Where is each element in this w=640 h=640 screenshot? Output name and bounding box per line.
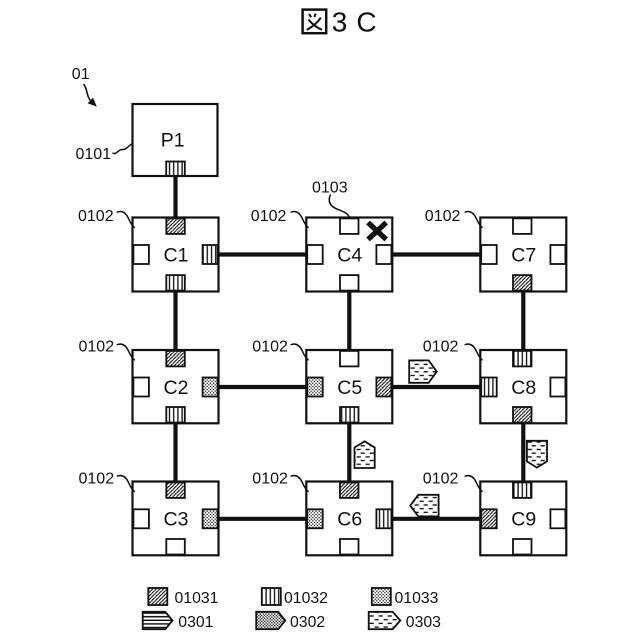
wire C2-C3 <box>173 422 177 483</box>
port C6 south <box>340 539 359 555</box>
svg-text:3: 3 <box>332 7 348 38</box>
svg-text:C3: C3 <box>164 509 189 531</box>
svg-text:P1: P1 <box>161 129 185 151</box>
svg-text:0102: 0102 <box>251 208 287 225</box>
legend swatch 0302 <box>256 612 285 629</box>
node C7 <box>480 218 566 292</box>
title 図3C <box>303 7 377 38</box>
wire C7-C8 <box>521 290 525 351</box>
wire C5-C8 <box>391 385 481 389</box>
svg-text:01031: 01031 <box>175 590 219 607</box>
port C2 north 01031 <box>166 351 185 367</box>
port C4 north <box>340 218 359 234</box>
wire C4-C5 <box>347 290 351 351</box>
port C9 west 01031 <box>481 509 497 528</box>
svg-text:0103: 0103 <box>312 180 348 197</box>
port C9 north 01032 <box>513 482 532 498</box>
wire C5-C6 <box>347 422 351 483</box>
message 0303 on wire C5-C6, pointing up <box>355 441 375 468</box>
port C2 east 01033 <box>203 378 218 397</box>
port C6 west 01033 <box>307 509 323 528</box>
node C1 <box>133 218 219 292</box>
svg-text:0102: 0102 <box>252 339 288 356</box>
wire P1-C1 <box>173 175 177 219</box>
port C6 north 01031 <box>340 482 359 498</box>
svg-text:0102: 0102 <box>423 339 459 356</box>
svg-text:01: 01 <box>72 66 90 83</box>
legend swatch 0301 <box>143 612 173 629</box>
leader 0101 <box>113 144 133 154</box>
port C2 west <box>133 378 149 397</box>
port C1 east 01032 <box>203 245 218 264</box>
port C8 east <box>550 378 565 397</box>
svg-text:0102: 0102 <box>423 471 459 488</box>
svg-text:0102: 0102 <box>252 471 288 488</box>
port C9 east <box>550 509 565 528</box>
svg-text:0303: 0303 <box>406 614 441 631</box>
port C7 north <box>513 218 532 234</box>
wire C1-C4 <box>217 252 307 256</box>
svg-text:C9: C9 <box>511 509 536 531</box>
svg-text:0101: 0101 <box>76 146 112 163</box>
legend swatch 01031 <box>148 588 167 605</box>
legend swatch 0303 <box>369 612 401 629</box>
svg-text:0302: 0302 <box>290 614 325 631</box>
port C1 south 01032 <box>166 275 185 291</box>
node P1 <box>133 104 218 176</box>
port C4 south <box>340 275 359 291</box>
port C7 south 01031 <box>513 275 532 291</box>
failure X mark <box>368 223 386 240</box>
wire C1-C2 <box>173 290 177 351</box>
port C5 south 01032 <box>340 407 359 423</box>
message 0303 on wire C8-C9, pointing down <box>527 441 547 468</box>
arrow for 01 <box>84 84 91 101</box>
svg-text:0102: 0102 <box>78 208 114 225</box>
node C4 <box>306 218 392 292</box>
svg-text:0102: 0102 <box>425 208 461 225</box>
svg-text:0102: 0102 <box>79 339 115 356</box>
port C1 north 01031 <box>166 218 185 234</box>
port C1 west <box>133 245 149 264</box>
port C8 north 01032 <box>513 351 532 367</box>
port C3 west <box>133 509 149 528</box>
svg-text:C1: C1 <box>164 245 189 267</box>
wire C3-C6 <box>217 517 307 521</box>
svg-text:C6: C6 <box>337 509 362 531</box>
svg-text:C: C <box>356 7 376 38</box>
svg-text:C5: C5 <box>337 377 362 399</box>
svg-text:0102: 0102 <box>79 471 115 488</box>
port C4 west <box>307 245 323 264</box>
port C8 west 01032 <box>481 378 497 397</box>
port C8 south 01031 <box>513 407 532 423</box>
port C7 east <box>550 245 565 264</box>
port C6 east 01032 <box>376 509 391 528</box>
svg-text:C4: C4 <box>337 245 362 267</box>
port C4 east <box>376 245 391 264</box>
port C7 west <box>481 245 497 264</box>
port C5 north <box>340 351 359 367</box>
legend swatch 01032 <box>262 588 281 605</box>
node C9 <box>480 482 566 556</box>
wire C8-C9 <box>521 422 525 483</box>
port C3 north 01031 <box>166 482 185 498</box>
leader 0103 <box>329 195 349 218</box>
wire C6-C9 <box>391 517 481 521</box>
svg-text:01032: 01032 <box>284 590 328 607</box>
node C8 <box>480 350 566 423</box>
port P1 south 01032 <box>166 162 185 177</box>
svg-text:0301: 0301 <box>178 614 213 631</box>
legend swatch 01033 <box>372 588 391 605</box>
port C3 south <box>166 539 185 555</box>
node C3 <box>133 482 219 556</box>
port C5 east 01031 <box>376 378 391 397</box>
svg-text:C8: C8 <box>511 377 536 399</box>
svg-text:C2: C2 <box>164 377 189 399</box>
wire C4-C7 <box>391 252 481 256</box>
message 0303 on wire C6-C9, pointing left <box>410 495 438 517</box>
port C2 south 01032 <box>166 407 185 423</box>
node C6 <box>306 482 392 556</box>
port C9 south <box>513 539 532 555</box>
node C5 <box>306 350 392 423</box>
svg-text:01033: 01033 <box>395 590 439 607</box>
port C5 west 01033 <box>307 378 323 397</box>
wire C2-C5 <box>217 385 307 389</box>
svg-text:C7: C7 <box>511 245 536 267</box>
message 0303 on wire C5-C8, pointing right <box>409 360 437 382</box>
port C3 east 01033 <box>203 509 218 528</box>
node C2 <box>133 350 219 423</box>
